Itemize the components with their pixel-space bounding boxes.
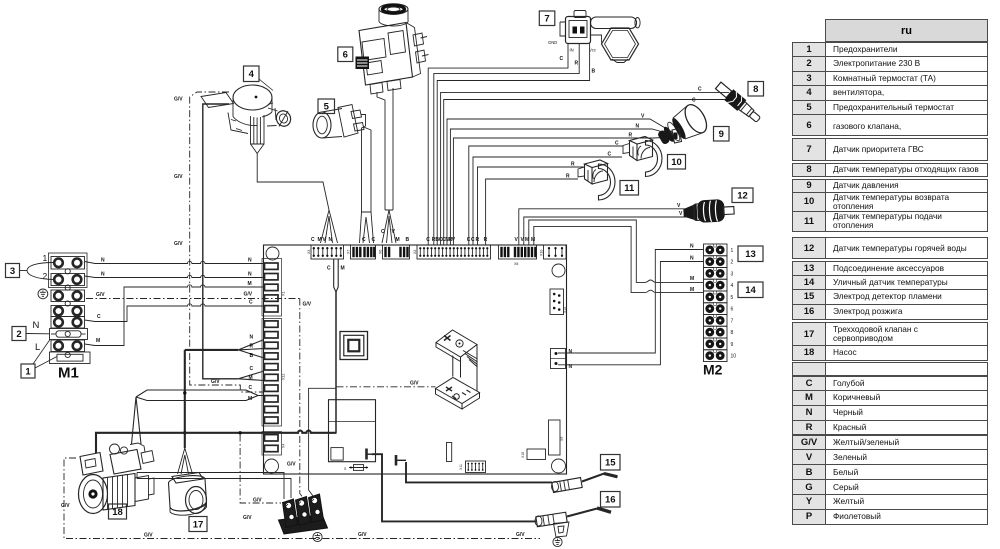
connector X8: [499, 245, 537, 266]
svg-text:M1: M1: [58, 365, 79, 382]
svg-text:7: 7: [544, 14, 549, 25]
comp5 wires to X7: [361, 115, 371, 213]
box 8: [748, 82, 764, 97]
gas valve 6: [356, 4, 429, 94]
svg-text:X3: X3: [307, 250, 311, 254]
svg-text:9: 9: [719, 129, 724, 140]
svg-text:N: N: [690, 244, 694, 250]
terminal strip earth symbol: [313, 532, 322, 541]
box 1: [21, 364, 35, 378]
svg-text:C: C: [698, 87, 702, 93]
svg-text:G/V: G/V: [243, 515, 252, 521]
T-connector detection: [395, 455, 398, 466]
fan cable fan-out C M to PCB: [238, 371, 264, 381]
svg-text:S: S: [344, 467, 347, 471]
box 14: [738, 282, 763, 298]
box 10: [668, 155, 686, 170]
svg-text:M: M: [249, 375, 253, 381]
G/V dash-dot pump earth loop: [64, 458, 540, 539]
svg-text:4: 4: [249, 69, 255, 80]
box 3 leader: [20, 270, 28, 272]
svg-text:C: C: [250, 366, 254, 372]
svg-text:2: 2: [731, 260, 734, 266]
svg-text:N: N: [101, 272, 105, 278]
svg-text:N: N: [33, 320, 40, 331]
electrode 16 earth symbol: [553, 537, 562, 546]
svg-text:B: B: [250, 353, 254, 359]
svg-text:M: M: [690, 276, 694, 282]
legend table: [825, 19, 988, 42]
svg-text:M: M: [248, 396, 252, 402]
M1 earth symbol: [38, 289, 48, 299]
wires V V from X8 to comp 12: [519, 209, 686, 245]
svg-text:C: C: [615, 141, 619, 147]
comp7 wire B: [437, 44, 589, 246]
svg-text:6: 6: [343, 50, 348, 61]
svg-text:11: 11: [624, 183, 635, 194]
svg-text:B: B: [592, 69, 596, 75]
svg-text:R: R: [629, 133, 633, 139]
svg-text:N: N: [250, 335, 254, 341]
svg-text:13: 13: [745, 249, 756, 260]
valve wires to X6: [377, 88, 393, 210]
svg-text:X7: X7: [347, 250, 351, 254]
svg-text:N: N: [636, 124, 640, 130]
svg-text:R: R: [250, 344, 254, 350]
svg-text:X6: X6: [379, 250, 383, 254]
ignition cable to electrode 16: [372, 454, 536, 521]
svg-text:X1: X1: [282, 292, 286, 296]
box 18: [109, 504, 127, 519]
connector X7: [347, 245, 376, 259]
svg-text:G/V: G/V: [174, 97, 183, 103]
TA jumper loop: [27, 263, 53, 280]
svg-text:M: M: [96, 338, 100, 344]
supply temp sensor 11: [578, 160, 615, 200]
transformer on PCB: [340, 332, 368, 360]
wire N (M1-1 to PCB): [85, 261, 265, 263]
box 15: [601, 455, 621, 471]
box 1 leaders to fuses: [33, 340, 57, 369]
svg-text:C: C: [608, 152, 612, 158]
svg-text:X12: X12: [282, 374, 286, 380]
svg-text:G/V: G/V: [410, 381, 419, 387]
svg-text:N: N: [569, 349, 573, 355]
T-connector ignition: [365, 449, 368, 460]
svg-text:X10: X10: [540, 250, 544, 256]
connector X15: [550, 289, 567, 315]
pressure sensor 9: [653, 101, 711, 153]
PCB mounting hole bottom-left: [265, 459, 279, 473]
box 13: [738, 246, 763, 262]
svg-text:V: V: [677, 203, 681, 209]
PCB mounting hole bottom-right: [552, 459, 566, 473]
PCB left edge connectors X1/X12/X4: [262, 259, 286, 456]
fan wire to X3: [257, 154, 329, 211]
box 3: [6, 264, 20, 278]
svg-text:G/V: G/V: [174, 174, 183, 180]
DHW priority sensor 7: [548, 11, 640, 63]
svg-text:G/V: G/V: [253, 498, 262, 504]
svg-text:8: 8: [753, 84, 758, 95]
X2 wire labels C R B C C N R V C C R R: [426, 237, 487, 243]
terminal block M2: [704, 244, 737, 362]
svg-text:G/V: G/V: [516, 532, 525, 538]
connector X6: [379, 245, 410, 259]
svg-text:N: N: [690, 256, 694, 262]
connector X3: [307, 245, 344, 259]
wire fan cable trunk: [203, 104, 239, 379]
svg-text:B: B: [406, 237, 410, 243]
fan 4: [201, 85, 293, 154]
bottom bus wire: [96, 431, 337, 453]
svg-text:IN: IN: [570, 48, 574, 53]
svg-text:X15: X15: [563, 307, 567, 313]
svg-text:L: L: [35, 342, 40, 353]
svg-text:G/V: G/V: [287, 462, 296, 468]
X6 wire labels C V M B: [381, 229, 410, 243]
svg-text:X9: X9: [560, 437, 564, 441]
connector X2: [413, 245, 491, 259]
svg-text:M: M: [248, 281, 252, 287]
svg-text:C: C: [327, 266, 331, 272]
box 7: [539, 11, 555, 26]
svg-text:10: 10: [731, 354, 737, 360]
svg-text:9: 9: [731, 342, 734, 348]
junction dots on valve trunk: [183, 391, 186, 394]
wire bundle X2 to sensors 8-11: [441, 92, 729, 245]
DHW temp sensor 12: [683, 199, 735, 224]
svg-text:G/V: G/V: [358, 532, 367, 538]
G/V dash-dot to bracket: [337, 386, 436, 388]
PCB main board outline: [264, 245, 567, 474]
svg-text:G/V: G/V: [144, 533, 153, 539]
wire valve-17 cable trunk: [184, 350, 186, 448]
bundle wire labels: [566, 87, 702, 180]
svg-text:C: C: [249, 385, 253, 391]
svg-text:GND: GND: [548, 40, 557, 45]
svg-text:16: 16: [605, 495, 616, 506]
wire N (M1-2 to PCB): [95, 275, 264, 277]
svg-text:V: V: [515, 237, 519, 243]
svg-text:N: N: [101, 258, 105, 264]
component X9: [549, 420, 565, 455]
svg-text:4: 4: [731, 283, 734, 289]
svg-text:G/V: G/V: [96, 292, 105, 298]
wire G/V vertical into PCB area: [300, 299, 304, 500]
svg-text:M: M: [690, 287, 694, 293]
svg-text:17: 17: [193, 519, 204, 530]
svg-text:15: 15: [605, 458, 616, 469]
detection cable to electrode 15: [406, 462, 552, 482]
svg-text:10: 10: [671, 157, 682, 168]
svg-text:N: N: [248, 272, 252, 278]
svg-text:14: 14: [745, 285, 756, 296]
pump cable pair C M to PCB: [136, 390, 264, 401]
svg-text:1: 1: [25, 366, 31, 377]
X8 wire labels V V M M: [515, 237, 536, 243]
svg-text:V: V: [679, 211, 683, 217]
svg-text:X8: X8: [514, 262, 518, 266]
box 9: [714, 127, 730, 142]
PCB mounting hole top-right: [552, 264, 565, 277]
wire pair C M from X3 down: [334, 259, 339, 292]
svg-text:C: C: [249, 300, 253, 306]
ignition electrode 16: [535, 508, 611, 537]
svg-text:1: 1: [43, 253, 48, 263]
svg-text:12: 12: [737, 191, 748, 202]
svg-text:M: M: [531, 237, 535, 243]
svg-text:X16: X16: [521, 452, 525, 458]
svg-text:R: R: [566, 174, 570, 180]
box 12: [732, 188, 753, 203]
svg-text:M: M: [341, 266, 345, 272]
G/V dash-dot to terminal strip: [240, 435, 281, 504]
svg-text:C: C: [311, 237, 315, 243]
svg-text:G/V: G/V: [211, 379, 220, 385]
comp5 wire funnel into X7: [360, 212, 374, 243]
M1 fuse holder F2: [50, 352, 91, 364]
svg-text:N: N: [248, 258, 252, 264]
svg-text:G/V: G/V: [174, 241, 183, 247]
svg-text:X4: X4: [282, 444, 286, 448]
comp7 wire C: [428, 44, 568, 246]
wire G/V earth dash-dot M1 to PCB: [86, 298, 300, 300]
wires into terminal strip: [137, 473, 291, 500]
box 11: [620, 181, 639, 196]
box 5: [318, 99, 335, 114]
svg-text:C: C: [692, 98, 696, 104]
X7 wire labels C C: [362, 237, 376, 243]
safety thermostat 5: [313, 105, 364, 139]
wire C (M1-N to PCB): [85, 304, 265, 322]
flue gas sensor 8: [714, 80, 764, 125]
svg-text:2: 2: [16, 329, 21, 340]
svg-text:X2: X2: [413, 250, 417, 254]
fan wire funnel into X3: [321, 210, 338, 243]
connector X11: [459, 461, 486, 473]
connector X10: [540, 245, 567, 259]
svg-text:3: 3: [10, 266, 15, 277]
wire G/V trunk (fan earth): [190, 92, 264, 392]
svg-text:8: 8: [731, 330, 734, 336]
wires M M from X8 to M2 4-5: [529, 220, 704, 282]
return temp sensor 10: [623, 137, 662, 177]
svg-text:C: C: [97, 314, 101, 320]
svg-text:3: 3: [731, 271, 734, 277]
box 4 leader: [259, 79, 273, 91]
svg-text:1: 1: [731, 248, 734, 254]
3-way valve 17: [169, 448, 207, 515]
svg-text:C: C: [560, 56, 564, 62]
M1 terminal numbers 1 2: [43, 253, 48, 281]
component R1: [447, 443, 452, 462]
fuse S1: [344, 465, 368, 471]
svg-text:R: R: [571, 162, 575, 168]
valve wire funnel into X6: [382, 210, 396, 243]
connector X14 pins N N: [551, 349, 573, 371]
flame detection electrode 15: [551, 474, 617, 493]
box 6: [338, 47, 353, 62]
svg-text:R: R: [575, 61, 579, 67]
valve cable fan-out N R B to PCB: [238, 340, 264, 359]
box 4: [244, 66, 260, 82]
pump 18: [79, 443, 155, 514]
box 17: [189, 517, 207, 532]
box 2: [12, 327, 26, 341]
terminal block M1: [49, 253, 88, 358]
component X16: [521, 449, 546, 460]
svg-text:G/V: G/V: [244, 292, 253, 298]
box 2 leader: [26, 333, 50, 335]
svg-text:G/V: G/V: [303, 302, 312, 308]
mounting bracket on PCB: [436, 330, 480, 409]
comp7 wire R: [434, 44, 579, 246]
svg-text:6: 6: [731, 307, 734, 313]
svg-text:M2: M2: [703, 362, 723, 378]
box 16: [601, 492, 621, 508]
M1 fuse holder F1: [50, 329, 88, 340]
mains terminal strip: [279, 494, 328, 534]
power block on PCB: [329, 400, 376, 462]
X3 wire labels C M V N: [311, 237, 333, 243]
svg-text:5: 5: [731, 295, 734, 301]
svg-text:7: 7: [731, 318, 734, 324]
PCB mounting hole top-left: [266, 247, 279, 260]
wire M (M1-L to PCB): [85, 285, 265, 346]
M1 labels N L: [33, 320, 41, 353]
wires N N from X14 to M2 1-2: [558, 250, 704, 354]
svg-text:X11: X11: [459, 464, 463, 470]
wire to mains terminal right: [309, 388, 336, 496]
